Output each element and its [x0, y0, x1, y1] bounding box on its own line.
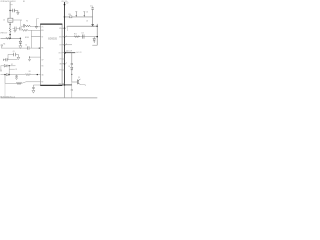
- svg-text:Q1: Q1: [78, 77, 80, 79]
- svg-text:D4: D4: [86, 11, 88, 13]
- svg-text:D1: D1: [3, 20, 5, 22]
- svg-text:C5: C5: [25, 44, 27, 46]
- svg-text:CP: CP: [41, 59, 43, 61]
- svg-text:R10: R10: [68, 14, 71, 16]
- svg-text:D2: D2: [11, 64, 13, 66]
- svg-text:ST: ST: [41, 36, 43, 38]
- svg-text:BD9535MUV-C2: BD9535MUV-C2: [0, 96, 16, 98]
- svg-text:BD9535: BD9535: [48, 37, 57, 40]
- svg-text:BT: BT: [60, 45, 62, 47]
- svg-text:EN: EN: [41, 30, 43, 32]
- svg-text:R3: R3: [23, 1, 25, 3]
- svg-text:C1 R1 10k C2 0.1u R2 C4: C1 R1 10k C2 0.1u R2 C4: [0, 1, 15, 3]
- svg-text:RT: RT: [41, 81, 43, 83]
- svg-text:C12: C12: [66, 2, 69, 4]
- svg-text:C9: C9: [68, 66, 70, 68]
- svg-text:FB: FB: [41, 48, 43, 50]
- svg-text:C8: C8: [15, 69, 17, 71]
- svg-text:R5: R5: [26, 21, 28, 23]
- svg-text:R8: R8: [29, 71, 31, 73]
- svg-text:D5: D5: [86, 21, 88, 23]
- svg-text:VIN: VIN: [59, 28, 62, 30]
- svg-text:R12: R12: [74, 34, 77, 36]
- svg-text:R6: R6: [3, 44, 5, 46]
- svg-text:Vo 1.2V: Vo 1.2V: [76, 52, 81, 54]
- svg-text:6: 6: [66, 62, 67, 64]
- svg-text:L1 2.2uH: L1 2.2uH: [66, 51, 72, 53]
- svg-text:BD95: BD95: [25, 37, 29, 39]
- svg-text:GN: GN: [59, 64, 61, 66]
- svg-text:C13: C13: [81, 33, 84, 35]
- svg-text:OUT: OUT: [58, 52, 61, 54]
- svg-text:SS: SS: [41, 65, 43, 67]
- svg-text:VREG 5V: VREG 5V: [0, 33, 8, 35]
- svg-text:2: 2: [66, 35, 67, 37]
